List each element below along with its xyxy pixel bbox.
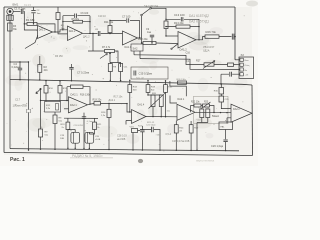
microphone BM1	[7, 8, 13, 20]
svg-text:DA2.1: DA2.1	[70, 104, 77, 107]
op-amp U8 DA2.2	[231, 104, 252, 122]
svg-text:10В: 10В	[60, 138, 64, 140]
capacitor C22	[200, 109, 204, 118]
resistor R21e	[93, 122, 97, 129]
wire R14 out	[101, 102, 128, 104]
svg-text:R12 20к: R12 20к	[138, 37, 148, 41]
svg-text:DA2.2: DA2.2	[233, 108, 240, 111]
wire U5 out	[88, 104, 95, 105]
wire mid bus corner	[242, 83, 252, 86]
svg-text:R5 82к: R5 82к	[72, 18, 80, 21]
svg-text:DA1.2: DA1.2	[69, 30, 76, 33]
op-amp U2 DA1.2	[68, 26, 83, 41]
scan speckle	[7, 11, 245, 151]
capacitor C2 drop from top	[33, 7, 35, 24]
wire mid bus	[10, 80, 242, 85]
switch SA2 box	[131, 44, 143, 51]
svg-text:0,1мк: 0,1мк	[87, 121, 93, 123]
svg-text:С13 100: С13 100	[174, 13, 185, 17]
wire U1 feedback	[24, 24, 55, 32]
wire C8 to U3	[101, 33, 123, 35]
capacitor C24 vertical	[141, 126, 143, 150]
svg-text:R13 20к: R13 20к	[174, 21, 184, 25]
svg-text:С7 0,22мк: С7 0,22мк	[77, 71, 90, 75]
svg-text:Х1 2,5: Х1 2,5	[24, 4, 32, 7]
trimmer R7	[105, 50, 115, 53]
resistor R18	[128, 85, 132, 93]
svg-text:DA2.1: DA2.1	[178, 98, 185, 101]
op-amp U6 DA1.4	[132, 110, 147, 124]
resistor R4 drop	[56, 13, 60, 20]
svg-text:0,5 А: 0,5 А	[166, 133, 172, 136]
paper mottle	[5, 9, 247, 144]
resistor R8	[53, 115, 57, 124]
wire C1 to U1 input	[24, 12, 38, 31]
capacitor C6 feedback	[63, 15, 90, 17]
svg-text:R26 130к: R26 130к	[177, 79, 186, 81]
svg-text:R22 13к: R22 13к	[191, 102, 200, 104]
resistor R10	[44, 86, 48, 94]
svg-text:ДА1.2: ДА1.2	[83, 36, 90, 39]
resistor R19m	[146, 85, 150, 93]
capacitor C21 series	[140, 130, 160, 151]
svg-text:1мк: 1мк	[37, 13, 41, 15]
wire U6 input lower	[126, 121, 132, 125]
capacitor C7 feedback over U3	[110, 21, 140, 39]
svg-text:R7 4,7к: R7 4,7к	[102, 46, 111, 49]
wire pin1	[235, 59, 240, 61]
block box C15	[131, 67, 168, 79]
connector X2	[239, 57, 254, 79]
svg-text:мк×30В: мк×30В	[117, 138, 126, 141]
svg-text:DA1 К157УД2: DA1 К157УД2	[189, 14, 209, 18]
resistor R14	[94, 102, 101, 105]
switch SA1 lever	[141, 16, 143, 38]
svg-text:100мк×10В: 100мк×10В	[13, 104, 28, 108]
svg-text:DA2.1: DA2.1	[71, 92, 79, 96]
wire U5 minus input	[41, 100, 69, 102]
block box ARU	[194, 96, 229, 123]
wire under bus L	[170, 81, 186, 96]
wire right supply vertical	[234, 7, 236, 60]
capacitor C13 feedback	[166, 19, 199, 40]
svg-text:С6 100: С6 100	[81, 12, 89, 15]
resistor R9b vertical	[119, 64, 123, 72]
op-amp U4 DA1.2	[178, 32, 196, 49]
svg-text:51к: 51к	[45, 135, 48, 137]
resistor R22	[194, 104, 201, 107]
wire ground bus	[10, 149, 239, 151]
wire U8 lower input	[227, 118, 231, 124]
wire into U4 upper	[166, 35, 178, 37]
svg-text:SA2: SA2	[133, 46, 138, 50]
resistor R25	[189, 125, 193, 133]
resistor R1	[27, 22, 37, 25]
trimmer R17 pair	[148, 94, 161, 96]
svg-text:50мкА: 50мкА	[212, 115, 219, 118]
trimmer R23	[203, 104, 210, 107]
wire U6 out	[146, 116, 177, 118]
wire box to R8	[54, 112, 56, 149]
resistor R2	[38, 65, 42, 73]
wire row y58.6	[140, 59, 240, 70]
svg-text:R23: R23	[204, 102, 209, 104]
wire U5 plus input	[64, 108, 69, 110]
electrolytic C19	[71, 132, 80, 143]
resistor R31 before pin	[228, 63, 234, 66]
svg-text:С23 0,47мк 16В: С23 0,47мк 16В	[172, 140, 190, 143]
capacitor C4	[10, 62, 29, 80]
op-amp U1 DA1.1	[38, 26, 53, 39]
wire U7 out	[195, 111, 231, 113]
capacitor C1	[21, 9, 23, 14]
svg-text:0,22мк: 0,22мк	[12, 65, 21, 69]
svg-text:R17 10к: R17 10к	[114, 96, 124, 99]
op-amp U7	[177, 104, 195, 120]
wire U4 out	[196, 37, 205, 40]
capacitor C8 series	[98, 31, 100, 36]
resistor R13 feedback	[176, 25, 190, 28]
svg-text:С15 0,33мк: С15 0,33мк	[139, 72, 153, 76]
svg-text:51к: 51к	[59, 121, 62, 123]
svg-text:С26 1,0мк: С26 1,0мк	[211, 144, 224, 148]
svg-text:×16В: ×16В	[156, 134, 162, 137]
op-amp U5 DA2.1	[69, 97, 88, 113]
wire diagonal to U1 plus input	[25, 35, 38, 48]
resistor R26	[205, 35, 219, 38]
svg-text:С18 4700: С18 4700	[74, 125, 84, 127]
resistor R8b vertical	[108, 64, 112, 72]
resistor R19e	[66, 122, 70, 129]
svg-text:Общ: Общ	[245, 65, 250, 67]
svg-text:SA1 МУ10А: SA1 МУ10А	[144, 4, 158, 8]
svg-text:R27: R27	[196, 60, 201, 63]
wire x28.5 vertical	[28, 62, 30, 151]
svg-text:×10В: ×10В	[95, 138, 101, 141]
wire SA1 lever bottom to R12	[141, 38, 143, 43]
svg-text:УВ1 К157: УВ1 К157	[203, 45, 215, 49]
capacitor C7b	[71, 64, 73, 81]
resistor R12	[143, 42, 156, 45]
svg-text:Рис. 1: Рис. 1	[10, 157, 25, 163]
resistor R9	[39, 129, 43, 137]
capacitor C26	[225, 130, 227, 151]
resistor R16 feedback U5	[71, 85, 84, 88]
resistor R11b	[58, 86, 62, 94]
wire U6 input upper	[127, 104, 132, 112]
svg-text:2к: 2к	[62, 127, 64, 129]
wire pin4 line	[221, 74, 240, 84]
electrolytic C20	[85, 132, 94, 143]
svg-text:1,2к: 1,2к	[101, 115, 105, 117]
svg-text:Х2: Х2	[241, 53, 245, 57]
node fb-left	[24, 23, 25, 24]
capacitor C25	[219, 96, 224, 102]
svg-text:С17: С17	[15, 98, 21, 102]
diode VD1	[132, 129, 138, 133]
ink blob	[138, 159, 143, 163]
resistor R5 feedback	[73, 20, 83, 23]
svg-text:УД2А: УД2А	[203, 48, 210, 52]
svg-text:ДА2.1: ДА2.1	[109, 99, 116, 102]
wire fb vertical x62.9	[62, 16, 64, 30]
wire U3 out	[138, 37, 142, 39]
trimmer R27	[204, 63, 214, 66]
switch lever SA1.2	[171, 48, 172, 49]
wire mic out	[13, 11, 20, 13]
svg-text:звукотехника: звукотехника	[196, 159, 215, 163]
wire x40.5 vertical	[40, 89, 42, 149]
resistor R30	[219, 88, 224, 95]
capacitor C10	[83, 113, 85, 149]
op-amp U3 DA1.3	[123, 31, 138, 45]
wire row y54.8	[134, 55, 197, 65]
svg-text:РАДИО № 5, 1983 г.: РАДИО № 5, 1983 г.	[72, 154, 104, 158]
svg-text:R16 130к: R16 130к	[80, 93, 91, 96]
svg-text:DA2 К157УД1: DA2 К157УД1	[189, 20, 209, 24]
svg-text:10к: 10к	[167, 111, 170, 113]
svg-text:С21 50мк: С21 50мк	[146, 124, 156, 126]
wire SA1 to x166	[151, 8, 166, 21]
svg-text:R26 70к: R26 70к	[206, 30, 217, 34]
svg-text:2,2к: 2,2к	[46, 108, 50, 110]
resistor R10v	[164, 21, 168, 29]
svg-text:С16: С16	[186, 52, 191, 55]
capacitor C23	[206, 109, 210, 118]
resistor R11 vertical	[108, 26, 112, 33]
wire U2 out	[83, 32, 98, 34]
wire trimmer to U7 upper	[170, 96, 177, 104]
box R12 block	[45, 102, 61, 113]
svg-text:С10 10: С10 10	[98, 15, 106, 18]
capacitor C9	[151, 37, 153, 43]
svg-text:R19 22к: R19 22к	[93, 98, 103, 101]
meter M1 box	[219, 122, 233, 130]
wire U1 out	[55, 30, 68, 32]
resistor R24	[174, 125, 178, 133]
svg-text:R20 1М: R20 1М	[136, 78, 144, 80]
svg-text:82к: 82к	[151, 90, 154, 92]
top right smudge	[246, 1, 258, 7]
svg-text:2к: 2к	[97, 127, 99, 129]
wire R26 to rail with cap	[219, 36, 235, 38]
resistor R15	[108, 104, 110, 150]
node input arrow	[40, 88, 42, 90]
resistor R21m	[164, 85, 168, 93]
wire fb vertical x90	[89, 16, 91, 34]
elco row top wire	[64, 117, 98, 119]
svg-text:R6 150: R6 150	[55, 55, 63, 58]
svg-text:1мк: 1мк	[61, 28, 65, 30]
wire left rail	[9, 16, 11, 149]
capacitor C17 on x28.5	[26, 110, 31, 112]
svg-text:DA1.4: DA1.4	[138, 103, 145, 106]
svg-text:С7 100: С7 100	[122, 15, 131, 19]
resistor R3	[8, 23, 12, 31]
node fb2-left	[62, 29, 63, 30]
svg-text:DA1.1: DA1.1	[39, 29, 46, 32]
resistor R33 in bus	[178, 81, 187, 84]
